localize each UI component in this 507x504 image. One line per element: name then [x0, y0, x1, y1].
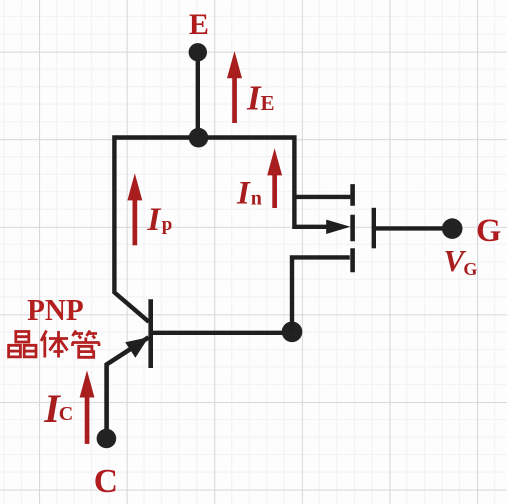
wire: gate to G terminal [374, 226, 452, 230]
svg-text:p: p [162, 214, 173, 235]
transistor Q1 emitter arrowhead (PNP, pointing to base) [125, 337, 148, 358]
svg-text:G: G [476, 213, 501, 249]
terminal G [442, 218, 463, 239]
node: emitter junction [189, 128, 209, 148]
MOSFET M1 arrowhead [326, 220, 350, 234]
svg-text:E: E [189, 8, 209, 41]
transistor Q1 (PNP) base bar [148, 299, 153, 368]
MOSFET M1: channel bars [350, 184, 355, 272]
svg-text:G: G [463, 259, 477, 279]
MOSFET M1: source stub with arrow [294, 225, 328, 229]
svg-text:I: I [236, 175, 251, 211]
arrow I_E [227, 51, 242, 123]
wire: top horizontal rail + left rail into emitter [114, 138, 294, 322]
MOSFET M1: gate bar [372, 208, 376, 249]
label 晶体管 (hand-drawn glyphs) [9, 331, 100, 358]
svg-text:C: C [94, 463, 118, 500]
svg-text:I: I [147, 202, 162, 238]
terminal C [97, 429, 117, 449]
wire: base to node B [151, 331, 292, 335]
svg-text:n: n [251, 187, 262, 209]
arrow I_C [80, 370, 95, 444]
arrow I_p [127, 173, 142, 245]
node B (base / MOSFET source junction) [282, 322, 303, 343]
arrow I_n [267, 148, 282, 208]
svg-text:E: E [261, 91, 275, 115]
MOSFET M1: drain stub (top) [294, 195, 350, 199]
terminal E [189, 43, 207, 61]
svg-text:C: C [59, 403, 73, 425]
svg-text:PNP: PNP [27, 292, 84, 327]
wire: E terminal to top node [196, 52, 200, 138]
transistor Q1 collector lead [107, 337, 149, 438]
MOSFET M1: lower stub [292, 257, 350, 331]
